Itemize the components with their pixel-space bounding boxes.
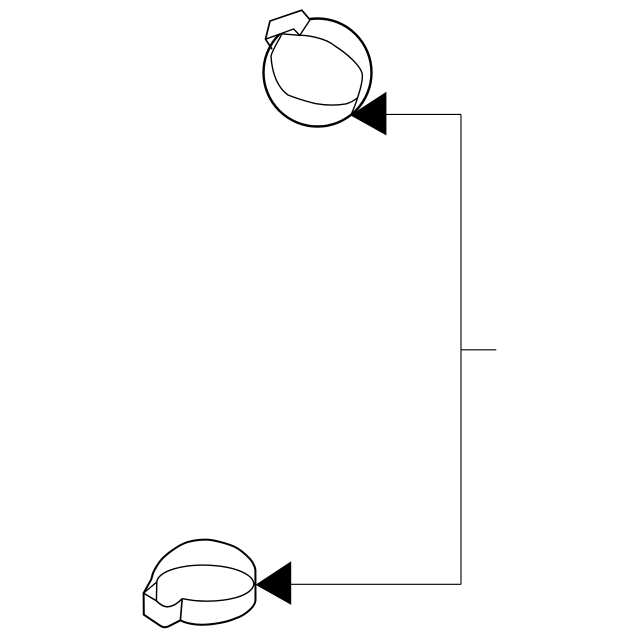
leader tick <box>461 349 496 351</box>
clamp 2 tab inner corner lines <box>144 582 157 601</box>
leader line top horizontal <box>385 113 461 115</box>
leader line vertical <box>460 114 462 584</box>
clamp 2 inner opening ellipse <box>157 565 254 601</box>
clamp 1 clip tab <box>266 10 311 39</box>
leader line bottom horizontal <box>291 583 462 585</box>
arrow 2 (bottom) <box>256 561 292 605</box>
arrow 1 (top) <box>350 92 386 136</box>
clamp 1 inner opening curve left bottom branch <box>271 34 358 105</box>
clamp 1 tab foot edge <box>266 39 272 48</box>
clamp 2 tab top fold <box>144 593 183 607</box>
clamp 2 (bottom) band silhouette <box>144 540 256 628</box>
clamp 1 inner opening curve top right branch <box>282 34 362 116</box>
clamp 1 (top) outer band silhouette <box>264 19 372 127</box>
clamp 2 tab right edge <box>180 599 182 620</box>
